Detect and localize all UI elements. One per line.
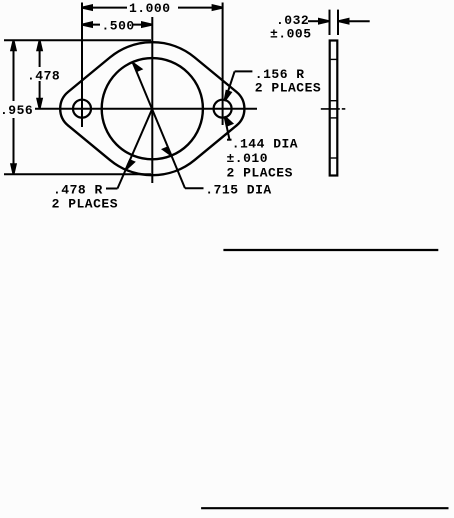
svg-text:±.010: ±.010 xyxy=(227,151,269,166)
svg-text:.956: .956 xyxy=(0,103,33,118)
svg-text:.715 DIA: .715 DIA xyxy=(205,183,271,198)
svg-text:.500: .500 xyxy=(102,18,135,33)
svg-text:.144 DIA: .144 DIA xyxy=(232,136,298,151)
svg-text:2 PLACES: 2 PLACES xyxy=(52,197,118,212)
svg-text:2 PLACES: 2 PLACES xyxy=(255,80,321,95)
svg-text:.478: .478 xyxy=(27,69,60,84)
svg-text:±.005: ±.005 xyxy=(270,26,312,41)
svg-text:2 PLACES: 2 PLACES xyxy=(227,165,293,180)
svg-text:.478 R: .478 R xyxy=(53,182,103,197)
svg-text:1.000: 1.000 xyxy=(129,1,171,16)
